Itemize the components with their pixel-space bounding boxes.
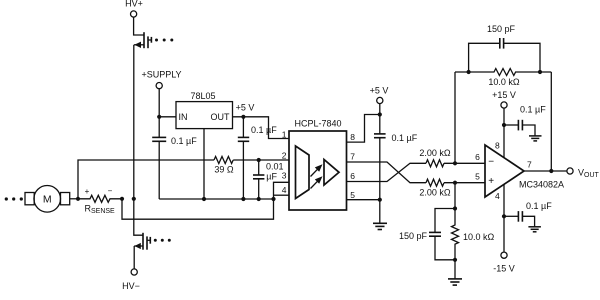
svg-text:+15 V: +15 V — [492, 90, 516, 100]
resistor 39 ohm — [214, 157, 233, 164]
svg-text:39 Ω: 39 Ω — [214, 165, 234, 175]
opamp plus sign — [488, 176, 494, 187]
svg-text:M: M — [43, 194, 52, 206]
label 10.0 kohm lower — [463, 232, 495, 242]
wire motor to node A — [70, 198, 78, 200]
capacitor 0.01uF — [253, 160, 264, 199]
svg-text:HV+: HV+ — [125, 0, 143, 9]
wire HCPL pin 6 cross to upper row — [347, 163, 427, 181]
node feedback cap left — [467, 70, 471, 74]
wire 78L05 GND pin to common — [203, 129, 205, 199]
svg-text:0.1 µF: 0.1 µF — [520, 105, 546, 115]
svg-text:OUT: OUT — [211, 112, 231, 122]
pin number 4 opamp — [495, 191, 500, 201]
pin number 5 — [350, 190, 355, 200]
svg-text:0.1 µF: 0.1 µF — [526, 201, 552, 211]
label RSENSE — [85, 204, 116, 216]
wire gnd stub — [379, 200, 381, 223]
node 0.01 cap gnd junction — [257, 197, 261, 201]
pin number 8 opamp — [495, 141, 500, 151]
node A (Rsense +) — [76, 197, 80, 201]
resistor RSENSE — [78, 195, 122, 202]
node RC bottom junction — [453, 258, 457, 262]
svg-text:0.1 µF: 0.1 µF — [392, 133, 418, 143]
wire +15V to opamp pin 8 — [503, 108, 505, 158]
node B (Rsense -) — [120, 197, 124, 201]
svg-text:7: 7 — [527, 159, 532, 169]
node +15V bypass junction — [502, 123, 506, 127]
label +5 V right — [370, 86, 389, 96]
node 78L05 gnd junction — [202, 197, 206, 201]
svg-text:2.00 kΩ: 2.00 kΩ — [419, 148, 451, 158]
terminal +15V — [501, 102, 507, 108]
wire opamp output — [524, 170, 567, 172]
capacitor 0.1uF -15V bypass — [504, 211, 535, 226]
terminal +5V right — [377, 97, 383, 103]
wire noninverting RC drop — [454, 183, 456, 209]
svg-text:MC34082A: MC34082A — [519, 180, 564, 190]
label VOUT — [578, 167, 600, 179]
capacitor 150pF to ground — [429, 209, 455, 260]
wire HV+ to Q1 drain — [134, 17, 144, 35]
node inverting input junction — [453, 161, 457, 165]
svg-text:1: 1 — [282, 130, 287, 140]
ground GND2 — [373, 223, 387, 229]
label 2.00 kohm upper — [419, 148, 451, 158]
wire +5V to HCPL pin 8 — [347, 104, 380, 143]
svg-text:150 pF: 150 pF — [399, 231, 428, 241]
svg-text:150 pF: 150 pF — [487, 24, 516, 34]
capacitor 0.1uF input bypass — [152, 117, 166, 199]
wire Rsense+ riser and 39ohm row to HCPL pin2 — [78, 160, 214, 199]
resistor 10.0k feedback — [455, 69, 551, 76]
label 0.1uF VDD2 — [392, 133, 418, 143]
ground +15V bypass — [529, 136, 542, 141]
resistor 2.00k upper — [426, 160, 444, 167]
svg-text:7: 7 — [350, 152, 355, 162]
U1 coupling arrow upper — [311, 164, 323, 176]
label 78L05 — [190, 91, 215, 101]
svg-text:−: − — [488, 157, 494, 168]
svg-text:5: 5 — [475, 171, 480, 181]
capacitor 0.1uF VDD2 bypass — [374, 115, 386, 200]
label 0.01 uF — [266, 161, 284, 181]
terminal HV- — [131, 269, 137, 275]
label +15 V — [492, 90, 516, 100]
wire 78L05 OUT +5V to HCPL pin1 — [233, 117, 290, 139]
label 150 pF feedback — [487, 24, 516, 34]
svg-text:µF: µF — [266, 172, 277, 182]
label -15 V — [493, 264, 515, 274]
pin number 6 — [350, 171, 355, 181]
svg-text:5: 5 — [350, 190, 355, 200]
wire HCPL pin3 and pin4 tie — [274, 182, 290, 199]
terminal VOUT — [567, 168, 573, 174]
capacitor 0.1uF 5V bypass — [238, 117, 249, 199]
label 0.1uF 5V bypass — [251, 125, 277, 135]
pin number 8 — [350, 132, 355, 142]
node output junction — [549, 169, 553, 173]
label IN — [179, 112, 188, 122]
svg-text:+5 V: +5 V — [236, 103, 255, 113]
node -15V bypass junction — [502, 214, 506, 218]
svg-text:+SUPPLY: +SUPPLY — [141, 69, 181, 79]
wire common ground line GND1 — [159, 198, 273, 200]
svg-text:IN: IN — [179, 112, 188, 122]
gate continuation dots Q2 — [154, 239, 171, 242]
label 0.1uF +15V — [520, 105, 546, 115]
node phase junction — [132, 197, 136, 201]
wire Q2 source to HV- terminal — [133, 246, 135, 269]
svg-text:4: 4 — [282, 185, 287, 195]
wire +SUPPLY to 78L05 IN — [159, 89, 176, 117]
wire feedback right riser to output — [550, 72, 552, 171]
capacitor 150pF feedback — [469, 38, 540, 72]
motor continuation dots — [5, 197, 23, 200]
U1 internal modulator trapezoid — [296, 146, 310, 199]
gate continuation dots Q1 — [155, 39, 173, 42]
op-amp U3 MC34082A — [485, 145, 524, 197]
wire lower row to opamp noninverting input — [444, 182, 485, 184]
svg-text:10.0 kΩ: 10.0 kΩ — [463, 232, 495, 242]
node noninverting input junction — [453, 181, 457, 185]
label 0.1uF -15V — [526, 201, 552, 211]
label MC34082A — [519, 180, 564, 190]
label HV+ — [125, 0, 143, 9]
svg-text:+: + — [488, 176, 494, 187]
svg-text:4: 4 — [495, 191, 500, 201]
svg-text:-15 V: -15 V — [493, 264, 515, 274]
polarity label + — [85, 187, 90, 196]
svg-text:6: 6 — [350, 171, 355, 181]
wire RC to ground stub — [454, 260, 456, 279]
ground RC — [448, 279, 462, 285]
svg-text:0.1 µF: 0.1 µF — [171, 136, 197, 146]
U1 internal output triangle — [324, 160, 339, 186]
pin number 2 — [282, 150, 287, 160]
wire feedback left riser — [454, 72, 456, 163]
svg-text:3: 3 — [282, 171, 287, 181]
pin number 4 — [282, 185, 287, 195]
terminal +SUPPLY — [156, 83, 162, 89]
wire HCPL pin 5 to ground — [347, 199, 380, 201]
resistor 10.0k to ground — [452, 209, 459, 260]
node pin5 gnd junction — [378, 198, 382, 202]
svg-text:−: − — [108, 187, 113, 196]
isolation amplifier U1 HCPL-7840 box — [289, 131, 347, 210]
pin number 1 — [282, 130, 287, 140]
label 150 pF lower — [399, 231, 428, 241]
svg-text:0.1 µF: 0.1 µF — [251, 125, 277, 135]
svg-text:+: + — [85, 187, 90, 196]
label 2.00 kohm lower — [419, 187, 451, 197]
svg-text:8: 8 — [495, 141, 500, 151]
svg-text:2: 2 — [282, 150, 287, 160]
motor M — [25, 186, 70, 213]
pin number 7 opamp — [527, 159, 532, 169]
node +5V junction — [241, 115, 245, 119]
opamp minus sign — [488, 157, 494, 168]
node VDD2 junction — [378, 112, 382, 116]
wire upper row to opamp inverting input — [444, 162, 485, 164]
wire Q1 source to phase node to Q2 drain — [134, 45, 143, 235]
wire HCPL pin 7 cross to lower row — [347, 162, 427, 183]
svg-text:78L05: 78L05 — [190, 91, 215, 101]
pin number 5 opamp — [475, 171, 480, 181]
node supply junction — [157, 115, 161, 119]
svg-text:6: 6 — [475, 152, 480, 162]
resistor 2.00k lower — [426, 179, 444, 186]
node feedback cap right — [538, 70, 542, 74]
wire opamp pin4 to -15V — [503, 184, 505, 252]
node pin3-4 common junction — [271, 197, 275, 201]
node RC top junction — [453, 206, 457, 210]
label 39 ohm — [214, 165, 234, 175]
pin number 7 — [350, 152, 355, 162]
polarity label - — [108, 187, 113, 196]
svg-text:+5 V: +5 V — [370, 86, 389, 96]
terminal -15V — [501, 252, 507, 258]
node pin2 filter junction — [257, 158, 261, 162]
wire 39ohm to HCPL pin 2 — [233, 159, 289, 161]
U1 coupling arrow lower — [311, 176, 323, 188]
transistor Q2 low-side MOSFET — [134, 233, 150, 250]
label +SUPPLY — [141, 69, 181, 79]
regulator U2 78L05 box — [176, 102, 233, 129]
label HV- — [122, 281, 140, 291]
label OUT — [211, 112, 231, 122]
svg-text:HCPL-7840: HCPL-7840 — [295, 119, 342, 129]
label HCPL-7840 — [295, 119, 342, 129]
label 0.1uF input bypass — [171, 136, 197, 146]
node 5V bypass gnd junction — [241, 197, 245, 201]
terminal HV+ — [131, 11, 137, 17]
transistor Q1 high-side MOSFET — [134, 32, 151, 48]
label 10.0 kohm feedback — [488, 77, 520, 87]
pin number 3 — [282, 171, 287, 181]
svg-text:10.0 kΩ: 10.0 kΩ — [488, 77, 520, 87]
wire Rsense- sense return loop — [122, 199, 274, 219]
svg-text:HV−: HV− — [122, 281, 140, 291]
ground -15V bypass — [528, 227, 541, 232]
svg-text:8: 8 — [350, 132, 355, 142]
pin number 6 opamp — [475, 152, 480, 162]
label +5 V left — [236, 103, 255, 113]
svg-text:2.00 kΩ: 2.00 kΩ — [419, 187, 451, 197]
capacitor 0.1uF +15V bypass — [504, 120, 535, 136]
